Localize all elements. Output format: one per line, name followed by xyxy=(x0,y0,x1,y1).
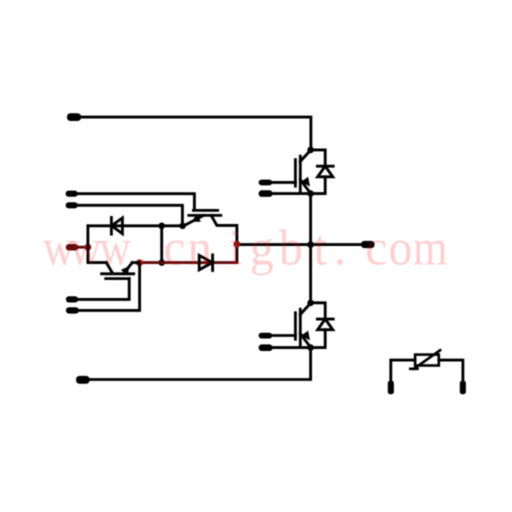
wire Q2 emitter sense xyxy=(272,346,311,349)
diode D1 triangle xyxy=(112,218,123,234)
svg-text:g: g xyxy=(250,219,274,275)
transistor Q3 emitter arrow xyxy=(191,214,201,222)
svg-text:c: c xyxy=(164,220,186,276)
svg-text:m: m xyxy=(413,221,448,276)
terminal T1 xyxy=(66,191,78,197)
node red junction right xyxy=(234,241,241,248)
wire diode D6 top stub xyxy=(311,303,326,319)
svg-text:o: o xyxy=(389,219,413,275)
svg-text:i: i xyxy=(229,219,242,275)
terminal A (Q4 gate) xyxy=(66,296,78,302)
wire diode D5 top stub xyxy=(311,150,326,166)
node D1 junction xyxy=(158,223,165,230)
node Q1 emitter junction xyxy=(307,190,314,197)
wire bottom bus xyxy=(88,348,311,380)
node Q3 emitter junction xyxy=(179,223,186,230)
wire output right xyxy=(311,243,362,246)
transistor Q2 body bar xyxy=(299,309,302,346)
transistor Q1 emitter lead xyxy=(300,180,310,194)
svg-text:t: t xyxy=(314,219,328,275)
diode D5 triangle xyxy=(318,166,333,177)
terminal E1 xyxy=(259,190,273,197)
terminal G1 xyxy=(259,180,273,186)
svg-text:n: n xyxy=(187,220,212,276)
wire Q1 gate xyxy=(272,181,295,184)
thermistor RT body xyxy=(415,355,439,366)
wire Q1 emitter sense xyxy=(272,192,311,195)
wire diode D5 bottom stub xyxy=(311,177,326,194)
terminal B (Q4 emitter) xyxy=(66,307,79,313)
transistor Q4 collector lead xyxy=(106,263,112,274)
terminal P1 (top left) xyxy=(67,113,81,121)
transistor Q4 emitter arrow xyxy=(121,266,130,275)
transistor Q3 gate bar xyxy=(193,209,217,212)
node Q2 emitter junction xyxy=(307,344,314,351)
node AC output junction xyxy=(307,241,314,248)
wire T1 to Q3 gate xyxy=(76,194,194,210)
diode D5 cathode bar xyxy=(317,165,333,168)
wire RT left lead xyxy=(391,360,415,381)
wire red row xyxy=(140,261,237,264)
wire mid vertical xyxy=(160,226,163,263)
wire output left xyxy=(237,243,311,246)
wire Q4 gate lead xyxy=(77,279,129,300)
node Q1 collector junction xyxy=(307,147,314,154)
diode D6 triangle xyxy=(318,319,333,330)
terminal N (bottom left) xyxy=(76,376,90,384)
wire left node row xyxy=(88,224,183,227)
op-amp U0 gate bar Q1 xyxy=(294,160,297,187)
terminal C (red left) xyxy=(66,244,79,251)
terminal G2 xyxy=(259,333,273,339)
svg-text:.: . xyxy=(334,219,346,275)
transistor Q2 emitter lead xyxy=(300,334,310,348)
wire left vertical xyxy=(88,226,106,263)
node lower-left junction xyxy=(158,259,165,266)
wire top bus xyxy=(79,117,311,150)
thermistor RT strike foot xyxy=(410,367,417,370)
node Q2 collector junction xyxy=(307,300,314,307)
transistor Q3 collector lead xyxy=(211,215,237,262)
transistor Q1 body bar xyxy=(299,156,302,192)
svg-text:w: w xyxy=(70,220,101,276)
svg-text:.: . xyxy=(136,219,148,275)
svg-text:b: b xyxy=(279,219,303,275)
terminal RT left xyxy=(388,381,394,395)
transistor Q4 gate bar xyxy=(106,277,130,280)
transistor Q2 gate bar xyxy=(294,313,297,340)
wire Q4 emitter return xyxy=(77,263,140,311)
terminal RT right xyxy=(460,381,466,395)
thermistor RT strike xyxy=(414,350,440,369)
wire diode D6 bottom stub xyxy=(311,330,326,348)
transistor Q1 emitter arrow xyxy=(301,177,310,187)
wire phase leg middle xyxy=(309,194,312,245)
node red junction left xyxy=(85,244,92,251)
node red junction mid xyxy=(136,259,143,266)
transistor Q4 emitter lead xyxy=(124,263,133,274)
transistor Q4 body bar xyxy=(102,272,134,275)
wire RT right lead xyxy=(439,360,463,381)
svg-text:c: c xyxy=(365,219,387,275)
wire Q2 gate xyxy=(272,334,295,337)
transistor Q2 emitter arrow xyxy=(301,331,310,341)
terminal AC out xyxy=(361,241,375,248)
transistor Q3 body bar xyxy=(189,214,221,217)
svg-text:w: w xyxy=(99,220,130,276)
wire phase leg lower xyxy=(309,245,312,303)
wire T2 down to node xyxy=(76,205,182,226)
transistor Q2 collector lead xyxy=(300,303,310,314)
transistor Q3 emitter lead xyxy=(183,215,203,226)
terminal E2 xyxy=(259,344,273,351)
watermark www.cnigbt.com xyxy=(43,219,448,276)
diode D6 cathode bar xyxy=(317,318,333,321)
wire red terminal stub xyxy=(77,246,88,249)
diode D2 triangle xyxy=(199,255,212,269)
diode D2 cathode bar xyxy=(211,255,214,271)
transistor Q1 collector lead xyxy=(300,150,310,161)
terminal T2 xyxy=(66,202,78,208)
diode D1 cathode bar xyxy=(110,218,113,235)
wire Q4 emitter to node xyxy=(132,261,140,264)
